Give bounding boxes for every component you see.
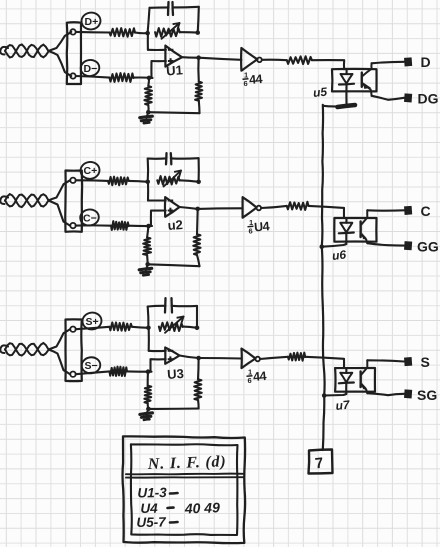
resistor (inverting input, channel 1) <box>110 73 134 82</box>
svg-text:C: C <box>421 203 431 219</box>
wire <box>198 158 200 182</box>
svg-text:C+: C+ <box>84 165 98 177</box>
terminal DG <box>404 93 412 102</box>
LED inside U5 <box>345 69 347 74</box>
wire <box>135 31 148 34</box>
svg-text:S−: S− <box>85 360 98 372</box>
wire <box>309 206 345 218</box>
junction <box>145 180 150 185</box>
junction <box>145 31 150 36</box>
wire <box>147 159 150 182</box>
wire <box>151 359 166 372</box>
svg-text:U3: U3 <box>167 366 185 382</box>
wire <box>76 76 110 78</box>
svg-text:U4: U4 <box>253 219 270 234</box>
wire <box>49 180 71 200</box>
node label D− <box>80 59 101 77</box>
phototransistor inside U5 <box>361 73 363 87</box>
junction <box>146 326 151 331</box>
wire <box>76 31 110 34</box>
resistor (inverting input, channel 3) <box>110 367 128 376</box>
capacitor (feedback, channel 2) <box>165 153 168 164</box>
wire <box>132 327 149 328</box>
wire <box>260 357 288 359</box>
wire <box>151 61 166 78</box>
wire <box>49 51 72 76</box>
capacitor (feedback, channel 3) <box>164 298 167 312</box>
wire <box>180 207 198 209</box>
resistor (non-inverting input, channel 2) <box>108 177 129 186</box>
svg-text:U5-7: U5-7 <box>136 514 167 530</box>
wire <box>148 49 166 51</box>
optocoupler U6 <box>334 218 376 242</box>
wire <box>147 182 149 201</box>
LED inside U7 <box>345 368 347 373</box>
wire <box>148 199 166 201</box>
wire <box>76 179 108 182</box>
svg-text:u5: u5 <box>312 85 328 100</box>
junction <box>145 262 150 267</box>
wire <box>261 206 287 208</box>
junction <box>322 393 327 398</box>
wire <box>150 6 169 9</box>
junction <box>196 180 201 185</box>
junction <box>196 55 201 60</box>
wire <box>148 157 167 160</box>
resistor (to ground, channel 1) <box>144 86 152 105</box>
optocoupler U5 <box>332 69 377 92</box>
pin C− <box>70 223 75 228</box>
wire <box>147 403 150 409</box>
svg-text:GG: GG <box>417 239 439 255</box>
terminal SG <box>404 389 412 398</box>
optocoupler U7 <box>335 368 375 392</box>
terminal C <box>404 206 412 215</box>
resistor (LED series, channel 3) <box>288 353 305 361</box>
ground (channel 2) <box>146 264 148 270</box>
resistor (output load, channel 3) <box>194 379 202 400</box>
pin S− <box>70 372 75 377</box>
terminal GG <box>404 241 412 250</box>
svg-text:S: S <box>421 354 430 370</box>
wire <box>147 33 149 50</box>
wire <box>367 243 404 245</box>
svg-text:6: 6 <box>249 227 253 236</box>
wire <box>312 60 344 69</box>
connector block (channel 3) <box>66 319 82 381</box>
potentiometer (feedback gain, channel 3) <box>159 322 183 331</box>
wire <box>76 327 110 329</box>
wire <box>367 393 404 395</box>
junction <box>147 76 152 81</box>
wire <box>372 96 404 100</box>
wire <box>76 371 110 374</box>
wire <box>148 112 199 113</box>
svg-text:D−: D− <box>84 63 98 75</box>
svg-text:D+: D+ <box>85 16 99 28</box>
wire <box>147 78 150 86</box>
inverter 1/6 U4 (channel 3) <box>242 349 256 369</box>
wire <box>76 224 111 226</box>
phototransistor inside U7 <box>359 371 362 387</box>
legend box inner frame <box>131 444 238 535</box>
svg-text:DG: DG <box>418 91 439 107</box>
wire <box>198 207 243 210</box>
node label C+ <box>79 161 100 180</box>
junction <box>196 356 201 361</box>
wire <box>173 6 199 9</box>
junction <box>146 369 151 374</box>
wire <box>147 226 148 238</box>
svg-text:D: D <box>421 54 431 70</box>
wire <box>49 32 72 51</box>
wire <box>148 328 150 351</box>
svg-text:N. I. F. (d): N. I. F. (d) <box>147 453 227 473</box>
svg-text:C−: C− <box>83 212 97 224</box>
resistor (to ground, channel 3) <box>144 386 151 404</box>
wire <box>372 62 404 64</box>
svg-text:40 49: 40 49 <box>184 499 221 516</box>
wire <box>148 305 166 308</box>
pin D+ <box>70 29 75 34</box>
terminal S <box>404 357 412 366</box>
wire <box>324 394 346 396</box>
twisted pair input (channel 3) <box>0 345 8 353</box>
junction <box>320 244 325 249</box>
ground (channel 1) <box>146 112 148 118</box>
net: LED return bus to pin 7 <box>322 105 325 450</box>
junction <box>146 224 151 229</box>
wire <box>367 209 404 212</box>
wire <box>305 357 344 368</box>
svg-text:6: 6 <box>244 79 248 88</box>
wire <box>146 255 149 264</box>
wire <box>196 306 198 328</box>
wire <box>182 56 199 59</box>
connector pin 7 box <box>309 450 333 474</box>
twisted pair input (channel 1) <box>0 47 8 55</box>
node label S+ <box>81 311 102 330</box>
resistor (inverting input, channel 2) <box>111 221 129 230</box>
svg-text:44: 44 <box>253 369 268 384</box>
svg-text:S+: S+ <box>86 316 99 328</box>
wire <box>198 101 201 114</box>
potentiometer (feedback gain, channel 1) <box>155 28 180 37</box>
resistor (LED series, channel 1) <box>287 56 312 64</box>
wire <box>197 358 200 379</box>
resistor (to ground, channel 2) <box>143 238 151 256</box>
connector block (channel 1) <box>67 22 81 84</box>
phototransistor inside U6 <box>359 221 362 237</box>
wire <box>147 371 149 385</box>
LED return junction (heavy ink) <box>338 105 356 107</box>
pin C+ <box>70 178 75 183</box>
wire <box>323 105 339 108</box>
wire <box>133 76 152 79</box>
connector block (channel 2) <box>65 171 82 232</box>
svg-text:7: 7 <box>314 455 324 473</box>
legend separator double line <box>126 473 244 476</box>
inverter 1/6 U4 (channel 2) <box>243 197 257 218</box>
wire <box>262 59 287 62</box>
wire <box>199 357 242 360</box>
svg-text:44: 44 <box>249 72 264 87</box>
svg-text:U1: U1 <box>166 62 184 78</box>
node label D+ <box>80 11 101 30</box>
wire <box>148 8 150 33</box>
wire <box>199 58 242 60</box>
junction <box>195 207 200 212</box>
svg-text:U1-3: U1-3 <box>137 485 167 501</box>
op-amp U3 <box>165 348 179 364</box>
wire <box>147 307 150 328</box>
potentiometer (feedback gain, channel 2) <box>157 176 179 184</box>
resistor (LED series, channel 2) <box>287 202 309 210</box>
wire <box>49 350 71 375</box>
resistor (output load, channel 2) <box>193 234 200 255</box>
pin D− <box>70 73 75 78</box>
node label C− <box>79 208 100 226</box>
op-amp U2 <box>165 197 180 217</box>
junction <box>146 110 151 115</box>
svg-text:SG: SG <box>417 387 437 403</box>
resistor (non-inverting input, channel 3) <box>110 323 132 331</box>
junction <box>195 30 200 35</box>
wire <box>49 329 71 349</box>
wire <box>367 360 404 361</box>
junction <box>146 407 151 412</box>
resistor (non-inverting input, channel 1) <box>110 28 136 37</box>
terminal D <box>404 57 412 66</box>
pin S+ <box>70 327 75 332</box>
ground (channel 3) <box>146 409 148 415</box>
legend box outer frame <box>123 436 246 543</box>
wire <box>196 209 199 234</box>
op-amp U1 <box>165 46 182 67</box>
wire <box>151 211 166 227</box>
svg-text:u6: u6 <box>331 248 347 263</box>
svg-text:6: 6 <box>248 376 252 385</box>
wire <box>127 370 152 372</box>
node label S− <box>81 356 102 374</box>
capacitor (feedback, channel 1) <box>167 2 170 15</box>
LED inside U6 <box>345 218 347 223</box>
wire <box>197 400 200 409</box>
wire <box>149 350 166 352</box>
wire <box>180 356 199 359</box>
inverter 1/6 U4 (channel 1) <box>241 48 257 71</box>
wire <box>197 255 200 266</box>
wire <box>197 58 200 82</box>
wire <box>147 105 149 112</box>
junction <box>195 326 200 331</box>
wire <box>148 407 198 410</box>
wire <box>49 201 71 226</box>
wire <box>322 244 347 247</box>
wire <box>129 225 152 227</box>
wire <box>171 157 199 160</box>
wire <box>129 180 148 183</box>
wire <box>172 305 198 308</box>
twisted pair input (channel 2) <box>0 196 8 204</box>
wire <box>148 264 200 266</box>
wire <box>198 7 199 33</box>
svg-text:u2: u2 <box>167 217 183 233</box>
resistor (output load, channel 1) <box>195 82 202 101</box>
